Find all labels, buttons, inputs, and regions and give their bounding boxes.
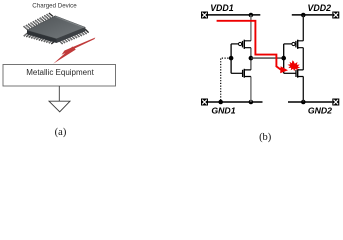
lightning bolt ESD [53, 38, 95, 64]
wire from box to ground [58, 86, 60, 101]
node VDD1-M1 junction [249, 13, 254, 18]
transistor M4 (NMOS right) [284, 69, 304, 78]
wire M2 source to GND1 [250, 77, 252, 103]
box Metallic Equipment [3, 65, 116, 87]
pad GND2 [332, 99, 339, 106]
node GND1-M2 junction [249, 100, 254, 105]
label Charged Device [32, 2, 77, 9]
wire M1 drain to output node [250, 48, 252, 70]
svg-text:Charged Device: Charged Device [32, 2, 77, 9]
red ESD current path [217, 21, 288, 74]
wire M3 source to VDD2 [302, 15, 304, 41]
GND2 rail [288, 101, 332, 103]
label VDD1 [210, 3, 234, 13]
spark at M4 drain [288, 60, 301, 71]
wire inverter1 output to inverter2 input [251, 57, 284, 59]
VDD1 rail [208, 14, 260, 16]
gate line inverter 2 [283, 44, 285, 73]
wire M3 drain to M4 drain [302, 48, 304, 70]
svg-text:GND2: GND2 [308, 105, 332, 115]
VDD2 rail [292, 14, 333, 16]
caption (b) [259, 132, 272, 143]
ground symbol (open triangle) [49, 101, 70, 112]
transistor M1 (PMOS left) [231, 40, 251, 49]
node VDD2-M3 junction [301, 13, 306, 18]
pad VDD1 [201, 12, 208, 19]
svg-text:(a): (a) [55, 127, 67, 138]
pad GND1 [201, 99, 208, 106]
node GND1 dotted junction [218, 100, 223, 105]
node GND2-M4 junction [301, 100, 306, 105]
node input inverter 1 [229, 56, 234, 61]
label GND2 [308, 105, 332, 115]
caption (a) [55, 127, 67, 138]
pad VDD2 [332, 12, 339, 19]
wire M4 source to GND2 [302, 77, 304, 103]
node input inverter 2 [281, 56, 286, 61]
svg-text:(b): (b) [259, 132, 272, 143]
IC chip U1 [24, 13, 89, 44]
svg-text:Metallic Equipment: Metallic Equipment [26, 68, 94, 77]
gate line inverter 1 [230, 44, 232, 73]
label VDD2 [308, 3, 332, 13]
transistor M3 (PMOS right) [284, 40, 304, 49]
svg-text:GND1: GND1 [211, 106, 235, 116]
svg-text:VDD2: VDD2 [308, 3, 332, 13]
dotted wire input to GND1 [221, 58, 231, 102]
node output inverter 1 [249, 56, 254, 61]
svg-text:VDD1: VDD1 [210, 3, 234, 13]
label GND1 [211, 106, 235, 116]
transistor M2 (NMOS left) [231, 69, 251, 78]
GND1 rail [208, 101, 263, 103]
wire M1 source to VDD1 [250, 15, 252, 41]
